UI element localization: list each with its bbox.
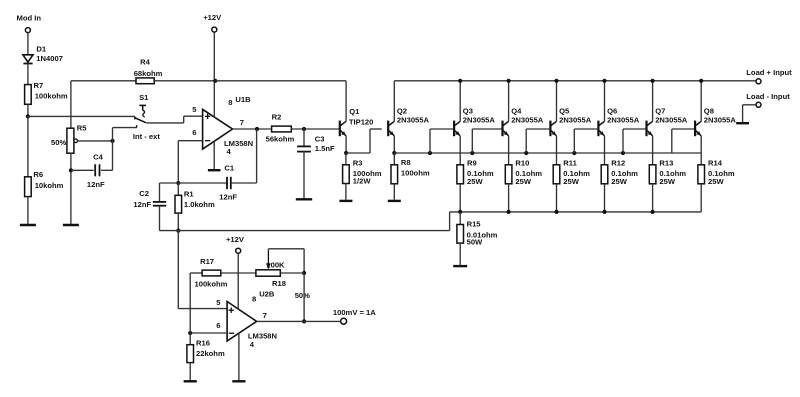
terminal Load - Input <box>743 102 761 123</box>
svg-text:1/2W: 1/2W <box>353 177 372 186</box>
svg-text:R9: R9 <box>467 159 477 168</box>
junction wiper node <box>110 139 114 143</box>
svg-text:C3: C3 <box>315 135 325 144</box>
wire U2B noninverting input <box>178 308 227 310</box>
svg-text:R15: R15 <box>467 220 482 229</box>
label 25W R10 <box>515 177 531 186</box>
ground below C3 <box>296 198 312 200</box>
wire R5 bottom <box>70 153 72 224</box>
terminal Mod In <box>25 28 30 55</box>
svg-text:R2: R2 <box>272 112 282 121</box>
label pin 7 U2B <box>263 311 267 320</box>
resistor R6 <box>25 177 32 224</box>
svg-text:Q3: Q3 <box>463 107 473 116</box>
label R17 <box>200 257 214 266</box>
svg-text:R10: R10 <box>515 159 529 168</box>
junction riser Q6 <box>572 151 576 155</box>
label U1B <box>235 95 251 104</box>
svg-text:+12V: +12V <box>226 235 245 244</box>
label R8 <box>401 158 411 167</box>
node A dot <box>26 114 30 118</box>
label 50% R18 <box>295 291 310 300</box>
wire C4 right lead <box>101 141 113 170</box>
label 1.0kohm R1 <box>184 200 215 209</box>
label Q7 <box>655 107 665 116</box>
svg-text:R14: R14 <box>708 159 723 168</box>
junction sense rail <box>602 210 606 214</box>
label C2 <box>139 189 149 198</box>
svg-text:100kohm: 100kohm <box>35 91 68 100</box>
wire node A down to R5 <box>70 116 72 127</box>
wire R10 bottom <box>508 184 510 212</box>
label C4 <box>93 153 103 162</box>
capacitor C4 <box>95 164 99 176</box>
wire C3 top lead <box>303 129 305 146</box>
junction U2B inv node <box>188 331 192 335</box>
svg-text:10kohm: 10kohm <box>35 181 64 190</box>
label R1 <box>184 189 194 198</box>
label 100kohm R7 <box>35 91 68 100</box>
wire emitter rail <box>394 152 701 154</box>
label 12nF C2 <box>133 200 151 209</box>
resistor R9 <box>457 153 464 184</box>
junction riser Q3 <box>428 151 432 155</box>
wire R5 wiper <box>78 140 113 142</box>
label R13 <box>659 159 673 168</box>
ground below R5 <box>63 224 79 226</box>
label U2B <box>259 289 275 298</box>
label 68kohm R4 <box>134 69 163 78</box>
label R15 <box>467 220 482 229</box>
wire Q1 emitter to Q2 base <box>346 129 382 153</box>
junction riser Q5 <box>524 151 528 155</box>
label 0.1ohm R10 <box>515 169 542 178</box>
resistor R3 <box>343 153 350 200</box>
transistor Q2 <box>388 81 394 153</box>
label Load + Input <box>746 68 792 77</box>
svg-text:5: 5 <box>216 298 221 307</box>
label 2N3055A Q2 <box>397 115 430 124</box>
capacitor C2 <box>153 202 166 206</box>
label Load - Input <box>746 92 790 101</box>
label R4 <box>140 57 150 66</box>
wire riser to Q7 base <box>623 129 646 153</box>
junction Q2 emitter <box>392 151 396 155</box>
svg-text:Q7: Q7 <box>655 107 665 116</box>
label R10 <box>515 159 529 168</box>
wire C2 top lead <box>160 183 179 202</box>
junction output-C1 <box>255 127 259 131</box>
junction collector Q3 <box>458 79 462 83</box>
svg-text:6: 6 <box>192 128 196 137</box>
ground U2B pin 4 <box>232 380 245 382</box>
svg-text:12nF: 12nF <box>87 180 105 189</box>
svg-text:Int - ext: Int - ext <box>133 132 160 141</box>
svg-text:100kohm: 100kohm <box>195 280 228 289</box>
label D1 <box>36 45 46 54</box>
capacitor C3 <box>297 146 311 151</box>
resistor R10 <box>505 153 512 184</box>
svg-text:R7: R7 <box>34 81 44 90</box>
label 2N3055A Q5 <box>559 115 592 124</box>
wire R8 bottom <box>393 184 395 200</box>
svg-text:50%: 50% <box>51 138 66 147</box>
wire R12 bottom <box>604 184 606 212</box>
label Q4 <box>511 107 522 116</box>
resistor R17 <box>202 270 221 276</box>
label 100K R18 <box>266 261 285 270</box>
label pin 8 U2B <box>252 295 256 304</box>
svg-text:Load - Input: Load - Input <box>746 92 790 101</box>
svg-text:U2B: U2B <box>259 289 275 298</box>
label 100kohm R17 <box>195 280 228 289</box>
junction R2-C3 <box>302 127 306 131</box>
junction R18 right <box>302 271 306 275</box>
svg-text:25W: 25W <box>515 177 531 186</box>
wire R18 down to output <box>303 273 305 321</box>
wire R11 bottom <box>556 184 558 212</box>
transistor Q5 <box>550 81 556 153</box>
label pin 7 U1B <box>240 118 244 127</box>
wire riser to Q3 base <box>430 129 453 153</box>
resistor R13 <box>649 153 656 184</box>
resistor R12 <box>601 153 608 184</box>
potentiometer R5 <box>67 128 78 153</box>
label 0.1ohm R12 <box>611 169 638 178</box>
label Mod In <box>17 13 42 22</box>
svg-text:R16: R16 <box>196 339 210 348</box>
wire riser to Q4 base <box>472 129 501 153</box>
ground below R8 <box>388 200 401 202</box>
label R11 <box>563 159 577 168</box>
label 50W R15 <box>467 238 483 247</box>
svg-text:100K: 100K <box>266 261 285 270</box>
label pin 4 U1B <box>227 147 232 156</box>
wire C2 bottom lead <box>159 206 161 231</box>
junction riser Q7 <box>621 151 625 155</box>
label 2N3055A Q6 <box>607 115 640 124</box>
label R3 <box>353 159 363 168</box>
label 12nF C1 <box>219 193 237 202</box>
svg-text:R13: R13 <box>659 159 673 168</box>
junction sense rail <box>458 210 462 214</box>
label R6 <box>33 170 43 179</box>
label 100mV = 1A <box>333 308 376 317</box>
wire R9 bottom <box>459 184 461 212</box>
label Q5 <box>559 107 570 116</box>
label 0.01ohm R15 <box>467 230 498 239</box>
svg-text:R18: R18 <box>272 279 286 288</box>
label 50% R5 <box>51 138 66 147</box>
ground below R15 <box>453 265 467 267</box>
wire wiper to switch <box>113 128 137 141</box>
svg-text:R8: R8 <box>401 158 411 167</box>
svg-text:R11: R11 <box>563 159 577 168</box>
svg-text:R1: R1 <box>184 189 194 198</box>
svg-text:Q4: Q4 <box>511 107 522 116</box>
wire C4 left lead <box>71 169 94 171</box>
label 2N3055A Q7 <box>655 115 688 124</box>
label 25W R13 <box>659 177 675 186</box>
label R18 <box>272 279 286 288</box>
label Q2 <box>397 107 407 116</box>
label 22kohm R16 <box>196 349 225 358</box>
junction riser Q4 <box>470 151 474 155</box>
label TIP120 <box>349 117 373 126</box>
svg-text:S1: S1 <box>139 93 149 102</box>
ground below R6 <box>20 224 36 226</box>
wire node A down to R6 <box>27 116 29 176</box>
wire U1B inverting input <box>178 141 202 183</box>
svg-text:+12V: +12V <box>203 13 222 22</box>
transistor Q8 <box>695 81 701 153</box>
junction C4 tap <box>69 168 73 172</box>
svg-text:7: 7 <box>263 311 267 320</box>
wire node A up to R4 <box>70 81 72 117</box>
junction Q1 emitter <box>344 151 348 155</box>
transistor Q6 <box>598 81 604 153</box>
label 100ohm R3 <box>353 169 382 178</box>
svg-text:2N3055A: 2N3055A <box>397 115 430 124</box>
label R5 <box>77 124 87 133</box>
label 0.1ohm R9 <box>467 169 494 178</box>
svg-text:Q2: Q2 <box>397 107 407 116</box>
junction collector Q4 <box>507 79 511 83</box>
svg-text:25W: 25W <box>467 177 483 186</box>
svg-text:1.5nF: 1.5nF <box>315 144 335 153</box>
svg-text:100mV = 1A: 100mV = 1A <box>333 308 376 317</box>
label pin 4 U2B <box>250 340 255 349</box>
label R9 <box>467 159 477 168</box>
wire node A rail <box>28 115 135 117</box>
label R14 <box>708 159 723 168</box>
svg-text:D1: D1 <box>36 45 46 54</box>
junction sense rail <box>507 210 511 214</box>
transistor Q4 <box>503 81 509 153</box>
label 0.1ohm R14 <box>708 169 735 178</box>
svg-text:100ohm: 100ohm <box>401 169 430 178</box>
label LM358N U1B <box>224 139 253 148</box>
svg-text:25W: 25W <box>563 177 579 186</box>
svg-text:5: 5 <box>192 105 197 114</box>
svg-text:C4: C4 <box>93 153 103 162</box>
transistor Q1 <box>340 81 346 153</box>
wire R4 right lead <box>154 80 215 82</box>
svg-text:R17: R17 <box>200 257 214 266</box>
label Q3 <box>463 107 473 116</box>
junction collector Q5 <box>554 79 558 83</box>
svg-text:C1: C1 <box>224 164 234 173</box>
label 12nF C4 <box>87 180 105 189</box>
label pin 6 U2B <box>216 321 220 330</box>
label 2N3055A Q3 <box>463 115 496 124</box>
diode D1 <box>23 55 33 85</box>
svg-text:U1B: U1B <box>235 95 251 104</box>
wire C1 left lead <box>178 182 227 184</box>
label pin 5 U2B <box>216 298 221 307</box>
potentiometer R18 <box>256 251 280 276</box>
wire riser to Q6 base <box>574 129 597 153</box>
junction +12V rail <box>213 79 217 83</box>
svg-text:50%: 50% <box>295 291 310 300</box>
svg-text:Q6: Q6 <box>607 107 617 116</box>
resistor R11 <box>553 153 560 184</box>
resistor R16 <box>187 333 194 363</box>
wire top rail right segment <box>394 80 756 82</box>
label 25W R14 <box>708 177 724 186</box>
label C1 <box>224 164 234 173</box>
label R2 <box>272 112 282 121</box>
resistor R15 <box>457 212 464 265</box>
svg-text:25W: 25W <box>659 177 675 186</box>
terminal +12V U2B <box>236 248 241 309</box>
wire riser to Q5 base <box>526 129 549 153</box>
label 1N4007 <box>36 54 63 63</box>
switch S1 <box>135 105 147 127</box>
ground below R16 <box>184 380 197 382</box>
wire R13 bottom <box>652 184 654 212</box>
svg-text:68kohm: 68kohm <box>134 69 163 78</box>
wire C1 right lead <box>231 129 257 183</box>
ground U1B pin 4 <box>208 169 221 171</box>
junction output tap <box>302 319 306 323</box>
svg-text:22kohm: 22kohm <box>196 349 225 358</box>
label Q8 <box>704 107 714 116</box>
svg-text:TIP120: TIP120 <box>349 117 373 126</box>
svg-text:8: 8 <box>228 98 232 107</box>
label 1.5nF C3 <box>315 144 335 153</box>
wire R16 bottom <box>189 363 191 381</box>
svg-text:50W: 50W <box>467 238 483 247</box>
wire U1B pin 4 to ground <box>213 141 215 169</box>
wire R4 left lead <box>71 80 136 82</box>
label 0.1ohm R13 <box>659 169 686 178</box>
svg-text:Load + Input: Load + Input <box>746 68 792 77</box>
svg-text:4: 4 <box>227 147 232 156</box>
resistor R4 <box>136 78 154 84</box>
svg-text:R5: R5 <box>77 124 87 133</box>
wire sense rail <box>450 212 702 231</box>
label Int - ext <box>133 132 160 141</box>
svg-text:2N3055A: 2N3055A <box>559 115 592 124</box>
svg-text:1.0kohm: 1.0kohm <box>184 200 215 209</box>
svg-text:25W: 25W <box>708 177 724 186</box>
svg-text:7: 7 <box>240 118 244 127</box>
svg-text:Q8: Q8 <box>704 107 714 116</box>
resistor R8 <box>391 153 398 184</box>
svg-text:2N3055A: 2N3055A <box>511 115 544 124</box>
wire riser to Q8 base <box>672 129 694 153</box>
wire top rail left segment <box>215 80 346 82</box>
svg-text:12nF: 12nF <box>219 193 237 202</box>
label 25W R11 <box>563 177 579 186</box>
label R16 <box>196 339 210 348</box>
label R12 <box>611 159 625 168</box>
svg-text:Q1: Q1 <box>349 107 360 116</box>
svg-text:2N3055A: 2N3055A <box>704 115 737 124</box>
junction collector Q6 <box>602 79 606 83</box>
wire U2B output <box>257 320 341 322</box>
svg-text:C2: C2 <box>139 189 149 198</box>
op-amp U1B <box>203 109 233 149</box>
svg-text:2N3055A: 2N3055A <box>463 115 496 124</box>
label 2N3055A Q4 <box>511 115 544 124</box>
transistor Q7 <box>647 81 653 153</box>
label Q6 <box>607 107 617 116</box>
svg-text:2N3055A: 2N3055A <box>655 115 688 124</box>
terminal output <box>341 318 347 324</box>
label +12V <box>203 13 222 22</box>
junction collector Q7 <box>651 79 655 83</box>
wire U2B inverting input <box>190 332 227 334</box>
label 10kohm R6 <box>35 181 64 190</box>
ground Load - Input <box>736 122 749 124</box>
wire R1 top lead <box>177 183 179 195</box>
resistor R7 <box>25 85 32 117</box>
label R7 <box>34 81 44 90</box>
junction inverting node <box>176 181 180 185</box>
label S1 <box>139 93 149 102</box>
svg-text:2N3055A: 2N3055A <box>607 115 640 124</box>
wire sense to U2B input <box>177 231 179 309</box>
wire R17 to R18 <box>221 272 256 274</box>
svg-text:8: 8 <box>252 295 256 304</box>
label Q1 <box>349 107 360 116</box>
junction collector Q8 <box>699 79 703 83</box>
resistor R1 <box>175 195 182 213</box>
svg-text:R6: R6 <box>33 170 43 179</box>
label pin 8 U1B <box>228 98 232 107</box>
label +12V U2B <box>226 235 245 244</box>
wire R17 branch <box>190 273 202 333</box>
svg-text:R12: R12 <box>611 159 625 168</box>
svg-text:R3: R3 <box>353 159 363 168</box>
label 25W R12 <box>611 177 627 186</box>
svg-text:12nF: 12nF <box>133 200 151 209</box>
label 2N3055A Q8 <box>704 115 737 124</box>
wire R18 right lead <box>280 272 304 274</box>
svg-text:4: 4 <box>250 340 255 349</box>
resistor R2 <box>272 126 292 132</box>
label pin 5 U1B <box>192 105 197 114</box>
svg-text:Mod In: Mod In <box>17 13 42 22</box>
resistor R14 <box>698 153 705 184</box>
wire U1B output <box>233 128 272 130</box>
wire R18 wiper loop <box>268 249 304 273</box>
label 1/2W R3 <box>353 177 372 186</box>
label 100ohm R8 <box>401 169 430 178</box>
label pin 6 U1B <box>192 128 196 137</box>
terminal +12V <box>212 27 217 117</box>
svg-text:6: 6 <box>216 321 220 330</box>
capacitor C1 <box>227 177 231 189</box>
svg-text:Q5: Q5 <box>559 107 570 116</box>
junction sense rail <box>554 210 558 214</box>
wire switch pole <box>147 116 203 123</box>
junction sense rail <box>651 210 655 214</box>
wire C3 bottom lead <box>303 152 305 199</box>
wire R14 bottom <box>700 184 702 212</box>
label LM358N U2B <box>248 332 277 341</box>
label C3 <box>315 135 325 144</box>
label 0.1ohm R11 <box>563 169 590 178</box>
terminal Load + Input <box>756 79 761 84</box>
transistor Q3 <box>454 81 460 153</box>
wire feedback sense <box>160 230 450 232</box>
junction R1-feedback <box>176 229 180 233</box>
svg-text:25W: 25W <box>611 177 627 186</box>
wire U2B pin 4 <box>238 333 240 381</box>
